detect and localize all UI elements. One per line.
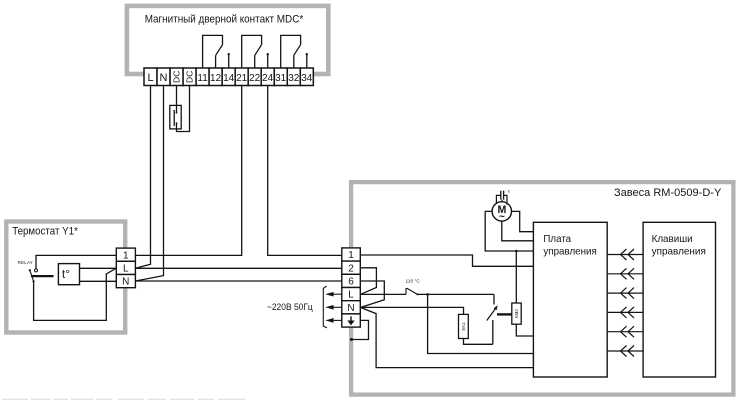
node junction 110C	[426, 293, 429, 296]
wire relay to terminal 1	[36, 255, 116, 271]
wire heater bottom to contact	[464, 339, 493, 345]
curtain enclosure frame	[351, 182, 733, 395]
supply arrow PE	[327, 319, 342, 322]
svg-text:DC: DC	[172, 71, 182, 83]
wire motor right to board	[512, 211, 534, 231]
svg-text:31: 31	[275, 73, 287, 84]
pin PE arrow	[348, 316, 353, 324]
ribbon link 3	[607, 288, 643, 299]
pin dot 14	[228, 53, 230, 55]
thermal cutout SK fixed tick	[405, 288, 407, 294]
wire t to N	[80, 280, 117, 282]
svg-text:Завеса RM-0509-D-Y: Завеса RM-0509-D-Y	[614, 187, 721, 199]
svg-text:Клавиши: Клавиши	[652, 234, 693, 245]
relay fixed contact	[35, 269, 38, 272]
switch K3 contact 31-32-34	[281, 35, 307, 68]
capacitor C leads	[496, 195, 507, 204]
svg-text:14: 14	[223, 73, 235, 84]
ribbon link 1	[607, 249, 643, 260]
supply arrow L	[327, 293, 342, 296]
wire DC1 down	[176, 86, 178, 114]
keys box	[643, 222, 715, 377]
ribbon link 4	[607, 307, 643, 318]
relay arm node	[33, 280, 35, 282]
reed contact SF1 box	[170, 105, 181, 128]
heater EK1	[459, 314, 469, 338]
wire N down branch	[361, 308, 533, 368]
switch K2 contact 21-22-24	[242, 35, 268, 68]
svg-text:RELAY: RELAY	[18, 260, 33, 265]
svg-text:110 °C: 110 °C	[406, 278, 421, 284]
wire t to L	[80, 267, 117, 269]
svg-text:L: L	[348, 290, 354, 301]
svg-text:1: 1	[123, 250, 129, 261]
svg-text:ЕК1: ЕК1	[461, 322, 466, 331]
svg-text:6: 6	[348, 277, 354, 288]
svg-text:N: N	[347, 303, 354, 314]
wire motor bottom to board	[502, 221, 534, 241]
KM2 actuator link	[497, 313, 512, 315]
svg-text:N: N	[122, 277, 129, 288]
ribbon link 6	[607, 346, 643, 357]
wire KM2 coil top	[515, 251, 517, 303]
relay arm	[30, 270, 34, 281]
wire N down from strip	[135, 86, 163, 282]
wire reed to DC2	[177, 86, 190, 132]
thermal cutout SK arm	[407, 288, 418, 294]
relay bimetal bar	[31, 275, 54, 277]
wire L down from strip	[135, 86, 150, 269]
sensor t box	[58, 264, 79, 285]
capacitor C plates	[501, 191, 504, 200]
svg-text:12: 12	[210, 73, 222, 84]
svg-text:DC: DC	[185, 71, 195, 83]
wire L bus to curtain 2	[135, 267, 341, 269]
wire down to KM2 contact	[493, 294, 495, 304]
svg-text:КМ2: КМ2	[514, 309, 519, 319]
svg-text:L: L	[123, 264, 129, 275]
node PE chassis	[350, 338, 353, 341]
svg-text:L: L	[147, 72, 153, 84]
wire 24 down to curtain 1	[268, 86, 342, 256]
supply brace	[323, 286, 327, 328]
svg-text:~220В 50Гц: ~220В 50Гц	[267, 302, 313, 312]
wire curtain 2 jumper to L	[360, 268, 376, 294]
relay pivot node	[29, 269, 31, 271]
svg-text:32: 32	[288, 73, 300, 84]
svg-text:~: ~	[499, 212, 505, 223]
wire L to thermal cutout	[360, 293, 406, 295]
svg-text:Магнитный дверной контакт MDC*: Магнитный дверной контакт MDC*	[145, 14, 304, 26]
ribbon link 5	[607, 326, 643, 337]
wire motor left to board	[485, 211, 533, 251]
switch K1 contact 11-12-14	[203, 35, 229, 68]
pin dot 24	[267, 53, 269, 55]
ribbon link 2	[607, 268, 643, 279]
thermostat terminal block	[116, 248, 135, 288]
svg-text:24: 24	[262, 73, 274, 84]
svg-text:N: N	[160, 72, 168, 84]
MDC enclosure frame	[127, 6, 328, 74]
wire N bus to curtain 6	[135, 280, 341, 282]
wire N to heater	[360, 307, 463, 314]
svg-text:управления: управления	[543, 247, 596, 258]
svg-text:22: 22	[249, 73, 261, 84]
wire junction down to board	[428, 294, 534, 353]
wire curtain 1 to board	[360, 255, 533, 266]
wire relay arm loop	[34, 268, 116, 320]
wire curtain 6 jumper to N	[360, 281, 384, 307]
svg-text:21: 21	[236, 73, 248, 84]
svg-text:t°: t°	[62, 267, 70, 281]
wire PE loop to chassis	[352, 320, 369, 339]
terminal strip X1	[144, 68, 313, 86]
svg-text:11: 11	[197, 73, 208, 84]
KM2 contact arm	[487, 308, 496, 321]
svg-text:Термостат Y1*: Термостат Y1*	[12, 225, 78, 237]
wire 21 down to node	[135, 86, 241, 256]
svg-text:34: 34	[301, 73, 313, 84]
motor M1 circle	[492, 202, 511, 221]
thermal cutout pivot node	[417, 293, 419, 295]
svg-text:Плата: Плата	[543, 234, 571, 245]
control board box	[533, 222, 607, 377]
thermostat enclosure frame	[6, 222, 125, 333]
svg-text:управления: управления	[652, 247, 706, 258]
supply arrow N	[327, 306, 342, 309]
cropped caption line	[2, 399, 245, 400]
svg-text:2: 2	[348, 263, 354, 274]
curtain terminal block	[342, 248, 361, 327]
wire KM2 coil bottom to board	[516, 324, 533, 336]
wire cutout to node	[418, 293, 495, 295]
node reed bottom	[176, 122, 178, 124]
svg-text:1: 1	[348, 250, 354, 261]
contactor coil KM2	[512, 303, 521, 324]
reed contact blade	[173, 110, 175, 126]
pin dot 34	[306, 53, 308, 55]
node reed top	[176, 112, 178, 114]
KM2 contact lower lead	[492, 320, 494, 344]
node KM2 tap	[515, 250, 518, 253]
KM2 contact arrowhead	[494, 305, 498, 310]
